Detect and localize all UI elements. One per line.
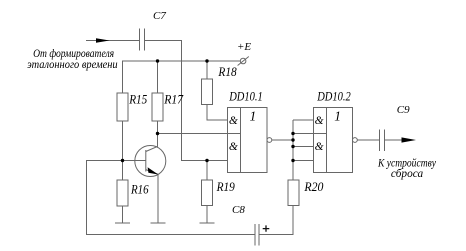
wire R17 bottom to collector node: [157, 121, 159, 134]
svg-text:C9: C9: [397, 104, 410, 116]
output arrowhead: [402, 137, 417, 142]
DD10.1 inner divider vertical: [240, 108, 242, 173]
wire base left loop to bottom rail: [87, 161, 256, 235]
capacitor C8: [255, 224, 259, 246]
resistor R20: [288, 180, 299, 206]
capacitor C7: [140, 29, 145, 51]
wire base node to transistor base: [123, 160, 146, 162]
terminal +E slash: [238, 57, 249, 66]
junction dot base node: [121, 159, 124, 162]
wire C9 right plate to output arrow: [385, 139, 403, 141]
svg-text:DD10.2: DD10.2: [316, 90, 350, 104]
DD10.2 inner divider vertical: [326, 108, 328, 173]
op box DD10.2: [314, 108, 353, 173]
svg-text:&: &: [315, 141, 324, 153]
op box DD10.1: [228, 108, 268, 173]
transistor emitter diagonal: [146, 170, 159, 175]
svg-text:R18: R18: [218, 64, 238, 79]
terminal +E circle: [240, 58, 246, 64]
transistor emitter arrowhead: [148, 167, 159, 174]
label C8 plus: [263, 225, 270, 231]
svg-text:R19: R19: [216, 179, 235, 194]
wire input arrow line: [86, 40, 139, 42]
svg-text:1: 1: [334, 109, 341, 124]
svg-text:1: 1: [250, 109, 257, 124]
junction dot manifold 4: [291, 159, 294, 162]
wire R16 bottom to ground: [122, 206, 124, 223]
svg-text:&: &: [315, 115, 324, 127]
wire DD10.1 output to manifold: [272, 139, 293, 141]
wire R15 bottom to base node to R16: [122, 121, 124, 180]
svg-text:+E: +E: [237, 41, 251, 53]
wire manifold input 4: [293, 160, 314, 162]
wire R18 top lead: [206, 61, 208, 79]
ground under emitter: [151, 222, 166, 224]
svg-text:R15: R15: [128, 91, 147, 106]
input arrowhead: [96, 38, 110, 43]
wire manifold input 2: [293, 133, 314, 135]
wire C7 right to down to DD10.1 input 3: [145, 41, 228, 161]
svg-text:R16: R16: [130, 182, 149, 197]
junction dot bus-R17: [156, 59, 159, 62]
junction dot R19 node: [205, 159, 208, 162]
capacitor C9: [380, 130, 385, 152]
svg-text:R17: R17: [163, 91, 183, 106]
resistor R18: [202, 79, 213, 105]
svg-text:R20: R20: [303, 179, 323, 194]
junction dot collector node: [156, 132, 159, 135]
svg-text:C7: C7: [153, 10, 166, 22]
wire R18 bottom to DD10.1 input 1: [207, 105, 228, 121]
DD10.1 output bubble: [267, 138, 272, 143]
ground under R16: [115, 222, 130, 224]
wire R19 top lead: [206, 161, 208, 181]
svg-text:&: &: [229, 115, 238, 127]
wire manifold input 1: [293, 119, 314, 121]
svg-text:&: &: [229, 141, 238, 153]
wire emitter vertical to ground: [157, 175, 159, 224]
transistor collector diagonal: [146, 146, 158, 151]
svg-text:C8: C8: [232, 204, 245, 216]
DD10.1 cell divider: [228, 133, 241, 135]
wire DD10.2 input manifold vertical: [292, 120, 294, 180]
resistor R17: [152, 93, 163, 121]
transistor Q circle: [135, 146, 166, 177]
wire manifold input 3: [293, 146, 314, 148]
resistor R15: [117, 93, 128, 121]
DD10.2 output bubble: [353, 138, 358, 143]
svg-text:сброса: сброса: [391, 166, 423, 180]
wire R17 top lead: [157, 61, 159, 93]
resistor R16: [117, 180, 128, 206]
svg-text:DD10.1: DD10.1: [228, 90, 262, 104]
junction dot manifold 2: [291, 138, 294, 141]
ground under R19: [200, 222, 215, 224]
junction dot manifold 1: [291, 132, 294, 135]
junction dot bus-R18: [205, 59, 208, 62]
svg-text:эталонного времени: эталонного времени: [27, 57, 118, 71]
junction dot manifold 3: [291, 145, 294, 148]
DD10.2 cell divider: [314, 133, 327, 135]
wire R19 bottom to ground: [206, 206, 208, 224]
wire +E bus: [123, 61, 241, 93]
wire collector node to DD10.1 input 2: [158, 133, 228, 135]
wire C8 right plate to R20 bottom: [259, 206, 293, 235]
wire collector vertical: [157, 134, 159, 147]
wire DD10.2 output to C9: [357, 139, 379, 141]
resistor R19: [202, 180, 213, 206]
transistor base bar: [145, 150, 147, 172]
